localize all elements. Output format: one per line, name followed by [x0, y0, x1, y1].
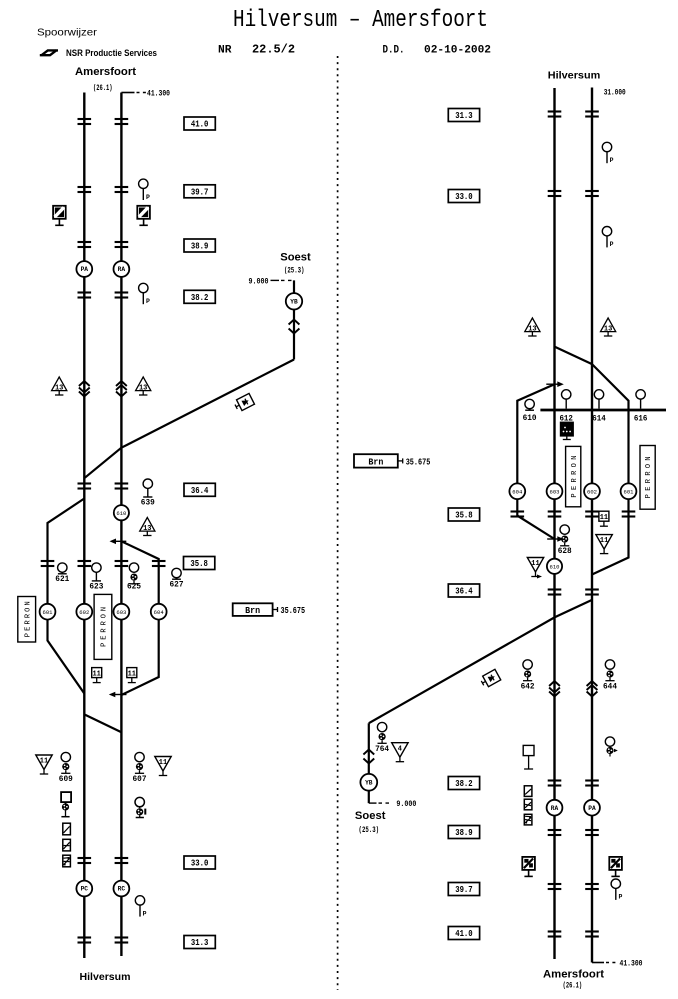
- left block circle RC: [114, 881, 130, 897]
- right signal 628: [560, 525, 569, 534]
- right Soest branch chevrons: [363, 750, 374, 755]
- svg-text:41.0: 41.0: [455, 928, 473, 939]
- svg-text:38.2: 38.2: [191, 292, 209, 303]
- left block circle PA: [76, 261, 92, 277]
- right signal 612: [562, 390, 571, 399]
- left tick marks km 36.4: [78, 482, 92, 484]
- left station Brn box: [233, 603, 273, 616]
- right km box 38.9: [448, 826, 479, 839]
- svg-text:36.4: 36.4: [455, 586, 473, 597]
- right km box 39.7: [448, 883, 479, 896]
- svg-text:P: P: [146, 194, 150, 201]
- svg-text:31.000: 31.000: [604, 88, 626, 98]
- Soest branch circle YB: [286, 293, 302, 309]
- svg-text:(26.1): (26.1): [563, 981, 583, 991]
- left track 1 wire: [83, 93, 85, 959]
- svg-text:31.3: 31.3: [191, 937, 209, 948]
- svg-text:Hilversum: Hilversum: [548, 69, 601, 81]
- left tick marks km 33.0: [78, 857, 92, 859]
- svg-text:RA: RA: [118, 266, 126, 273]
- left sign 11 west: [92, 668, 102, 678]
- right triangle sign 13 east: [601, 318, 616, 332]
- left signal 621: [58, 563, 67, 572]
- svg-text:41.0: 41.0: [191, 119, 209, 130]
- svg-text:Soest: Soest: [355, 810, 386, 822]
- left station tick marks row: [41, 560, 55, 562]
- svg-text:P: P: [610, 241, 614, 248]
- svg-text:603: 603: [116, 610, 126, 616]
- left loop track 604 wire: [121, 541, 158, 695]
- svg-text:PC: PC: [81, 886, 89, 893]
- svg-text:NSR Productie Services: NSR Productie Services: [66, 48, 157, 58]
- svg-text:P: P: [618, 894, 622, 901]
- svg-text:11: 11: [40, 758, 48, 766]
- right station circle 601: [621, 483, 637, 499]
- left block circle PC: [76, 881, 92, 897]
- left inverted triangle 11 west: [36, 755, 52, 770]
- svg-text:Amersfoort: Amersfoort: [543, 969, 604, 981]
- left platform box PERRON west: [18, 597, 36, 643]
- svg-text:609: 609: [59, 774, 73, 784]
- svg-text:610: 610: [116, 511, 126, 517]
- left hatched box 2: [63, 839, 71, 851]
- left station circle 603: [114, 604, 130, 620]
- right tick marks km 41.0: [548, 930, 562, 932]
- right track 1 direction chevrons: [549, 681, 560, 686]
- svg-text:11: 11: [600, 514, 608, 522]
- left station circle 602: [76, 604, 92, 620]
- svg-text:(25.3): (25.3): [359, 825, 380, 835]
- right hatched box 2: [524, 799, 532, 810]
- left circle 610 on track 2: [114, 505, 129, 520]
- right signal P upper: [602, 142, 611, 151]
- svg-text:38.9: 38.9: [191, 241, 209, 252]
- right signal 642: [523, 660, 532, 669]
- svg-text:D.D.: D.D.: [383, 45, 405, 57]
- left crossover track2 to track1: [84, 448, 121, 479]
- rotated sign on Soest diagonal: [233, 393, 254, 412]
- left signal 609: [61, 752, 70, 761]
- svg-text:38.9: 38.9: [455, 827, 473, 838]
- right square sign on pole: [523, 745, 534, 755]
- svg-text:764: 764: [375, 744, 389, 754]
- right track 2 direction chevrons: [587, 681, 598, 686]
- left level crossing sign east: [137, 206, 150, 219]
- left square sign with indicator: [61, 792, 71, 802]
- left signal P bottom: [135, 896, 144, 905]
- left tick marks km 38.9: [78, 241, 92, 243]
- left platform box PERRON middle: [94, 594, 112, 659]
- svg-text:621: 621: [55, 574, 69, 584]
- left switch arrow south: [111, 694, 127, 696]
- left km box 39.7: [184, 185, 215, 198]
- svg-text:610: 610: [550, 565, 560, 571]
- left signal 607: [135, 752, 144, 761]
- svg-text:35.8: 35.8: [455, 510, 473, 521]
- svg-text:601: 601: [624, 490, 634, 496]
- right circle 610 on track 1: [547, 559, 562, 574]
- left signal 623: [92, 563, 101, 572]
- svg-text:628: 628: [558, 546, 572, 556]
- centre divider dashed line: [337, 56, 339, 990]
- svg-text:41.300: 41.300: [147, 88, 170, 98]
- right station Brn box: [354, 454, 398, 467]
- left station circle 604: [151, 604, 167, 620]
- right crossover and Soest branch diagonal: [369, 600, 592, 723]
- right loop track 604 wire: [517, 384, 554, 539]
- svg-text:9.000: 9.000: [249, 276, 269, 286]
- right signal 610: [525, 399, 534, 408]
- right switch arrow south: [547, 538, 562, 540]
- svg-text:NR: NR: [218, 45, 232, 57]
- svg-text:Spoorwijzer: Spoorwijzer: [37, 27, 98, 39]
- left km box 31.3: [184, 936, 215, 949]
- svg-text:RC: RC: [118, 886, 126, 893]
- left block circle RA: [114, 261, 130, 277]
- svg-text:22.5/2: 22.5/2: [252, 44, 295, 57]
- svg-text:11: 11: [600, 537, 608, 545]
- right tick marks km 39.7: [548, 883, 562, 885]
- right block circle RA: [547, 800, 563, 816]
- right level crossing sign west: [522, 857, 535, 870]
- left tick marks km 41.0: [78, 118, 92, 120]
- right signal 644: [605, 660, 614, 669]
- svg-text:41.300: 41.300: [620, 959, 643, 969]
- svg-text:YB: YB: [365, 780, 373, 787]
- svg-text:644: 644: [603, 682, 617, 692]
- right station circle 604: [509, 483, 525, 499]
- right hatched box 3: [524, 814, 532, 825]
- svg-text:602: 602: [79, 610, 89, 616]
- right signal with indicator and arrow: [605, 737, 614, 746]
- svg-text:35.675: 35.675: [281, 606, 306, 616]
- svg-text:02-10-2002: 02-10-2002: [424, 45, 491, 57]
- left tick marks km 38.2: [78, 291, 92, 293]
- right tick marks below station: [548, 588, 562, 590]
- svg-text:P: P: [610, 157, 614, 164]
- svg-text:9.000: 9.000: [396, 799, 416, 809]
- left triangle sign 13 east: [136, 377, 151, 391]
- left crossover track1 to track2 south: [84, 714, 121, 732]
- right km box 38.2: [448, 777, 479, 790]
- right km box 36.4: [448, 584, 479, 597]
- svg-text:33.0: 33.0: [191, 858, 209, 869]
- right track 2 wire: [591, 88, 593, 963]
- Soest branch direction chevrons: [289, 320, 300, 325]
- svg-text:603: 603: [550, 490, 560, 496]
- svg-text:625: 625: [127, 582, 141, 592]
- Soest branch diagonal wire to track 2: [121, 360, 294, 448]
- right km box 33.0: [448, 190, 479, 203]
- right tick marks km 33.0: [548, 190, 562, 192]
- Soest branch wire: [293, 280, 295, 359]
- right track 1 wire: [553, 88, 555, 959]
- svg-text:PA: PA: [81, 266, 89, 273]
- right km box 35.8: [448, 508, 479, 521]
- right triangle sign 13 west: [525, 318, 540, 332]
- svg-text:Amersfoort: Amersfoort: [75, 66, 136, 78]
- left hatched box 3: [63, 855, 71, 867]
- svg-text:35.8: 35.8: [190, 558, 208, 569]
- left km box 38.9: [184, 239, 215, 252]
- svg-text:11: 11: [531, 560, 539, 568]
- left tick marks km 31.3: [78, 936, 92, 938]
- left station circle 601: [40, 604, 56, 620]
- rotated sign on right Soest diagonal: [480, 669, 501, 688]
- svg-text:627: 627: [170, 580, 184, 590]
- svg-text:P: P: [146, 298, 150, 305]
- left signal 639: [143, 479, 152, 488]
- left track 1 direction chevrons: [79, 381, 90, 386]
- right loop track 601 wire: [592, 364, 629, 574]
- svg-text:623: 623: [89, 582, 103, 592]
- svg-text:639: 639: [141, 497, 155, 507]
- left km start 41.300 connector: [121, 92, 134, 94]
- right matrix display box: [560, 422, 573, 436]
- svg-text:4: 4: [398, 745, 402, 753]
- left km box 41.0: [184, 117, 215, 130]
- left tick marks km 39.7: [78, 186, 92, 188]
- right signal P bottom: [611, 879, 620, 888]
- right station tick marks row: [511, 510, 525, 512]
- left switch arrow north: [112, 540, 127, 542]
- svg-text:36.4: 36.4: [191, 485, 209, 496]
- svg-text:602: 602: [587, 490, 597, 496]
- right km box 41.0: [448, 927, 479, 940]
- right station circle 603: [547, 483, 563, 499]
- left track 2 direction chevrons: [116, 381, 127, 386]
- right tick marks km 38.9: [548, 829, 562, 831]
- left triangle sign 13 west: [52, 377, 67, 391]
- right station circle 602: [584, 483, 600, 499]
- left loop track 601 wire: [48, 499, 85, 694]
- svg-text:38.2: 38.2: [455, 778, 473, 789]
- svg-text:31.3: 31.3: [455, 110, 473, 121]
- left km box 36.4: [184, 483, 215, 496]
- right switch arrow north: [546, 383, 562, 385]
- svg-text:11: 11: [92, 671, 100, 679]
- svg-text:(25.3): (25.3): [284, 266, 305, 276]
- svg-text:33.0: 33.0: [455, 191, 473, 202]
- svg-text:642: 642: [521, 682, 535, 692]
- left hatched box 1: [63, 823, 71, 835]
- left level crossing sign west: [53, 206, 66, 219]
- left track 2 wire: [120, 93, 122, 957]
- right platform box PERRON middle: [566, 446, 581, 506]
- svg-text:Soest: Soest: [280, 252, 311, 264]
- right signal P second: [602, 227, 611, 236]
- svg-text:YB: YB: [290, 299, 298, 306]
- right km end 41.300 connector: [592, 962, 604, 964]
- right inverted triangle 11 west: [527, 558, 543, 573]
- left km box 38.2: [184, 290, 215, 303]
- svg-text:39.7: 39.7: [455, 884, 473, 895]
- left signal 625: [129, 563, 138, 572]
- right inverted triangle 11 east: [596, 535, 612, 550]
- svg-text:604: 604: [512, 490, 522, 496]
- NS logo: [40, 50, 57, 55]
- right level crossing bar: [540, 409, 666, 412]
- svg-text:Hilversum – Amersfoort: Hilversum – Amersfoort: [233, 7, 488, 34]
- svg-text:35.675: 35.675: [406, 457, 431, 467]
- right tick marks km 38.2: [548, 779, 562, 781]
- right Soest km 9.000 tie line: [369, 802, 377, 804]
- right block circle PA: [584, 800, 600, 816]
- svg-text:604: 604: [154, 610, 164, 616]
- right km box 31.3: [448, 109, 479, 122]
- right signal 764: [377, 722, 386, 731]
- svg-text:RA: RA: [551, 805, 559, 812]
- left inverted triangle 11 east: [155, 757, 171, 772]
- left sign 11 east: [127, 668, 137, 678]
- svg-text:614: 614: [592, 414, 606, 423]
- left signal P upper: [139, 179, 148, 188]
- svg-text:610: 610: [523, 413, 537, 423]
- right platform box PERRON east: [640, 446, 655, 510]
- svg-text:39.7: 39.7: [191, 187, 209, 198]
- right sign 11 east: [599, 511, 609, 521]
- left signal circle east: [135, 797, 144, 806]
- svg-text:616: 616: [634, 414, 648, 423]
- right inverted triangle 4: [392, 743, 408, 758]
- right crossover track1 to track2 north: [555, 347, 593, 365]
- svg-text:P: P: [143, 910, 147, 917]
- right hatched box 1: [524, 786, 532, 797]
- left km box 35.8: [184, 557, 215, 570]
- left signal 627: [172, 568, 181, 577]
- svg-text:607: 607: [133, 774, 147, 784]
- left signal P lower: [139, 283, 148, 292]
- Soest km 9.000 tie line: [271, 279, 280, 281]
- svg-text:11: 11: [128, 671, 136, 679]
- right level crossing sign east: [609, 857, 622, 870]
- svg-text:601: 601: [43, 610, 53, 616]
- right Soest circle YB: [360, 774, 377, 791]
- svg-text:Brn: Brn: [245, 606, 260, 616]
- svg-text:11: 11: [159, 759, 167, 767]
- left km box 33.0: [184, 856, 215, 869]
- left triangle sign 13 south: [140, 518, 155, 532]
- right signal 614: [594, 390, 603, 399]
- svg-text:PA: PA: [588, 805, 596, 812]
- right tick marks km 31.3: [548, 110, 562, 112]
- svg-text:Hilversum: Hilversum: [80, 971, 131, 983]
- svg-text:(26.1): (26.1): [93, 83, 113, 93]
- right Soest branch wire: [368, 723, 370, 803]
- svg-text:Brn: Brn: [368, 457, 383, 467]
- right signal 616: [636, 390, 645, 399]
